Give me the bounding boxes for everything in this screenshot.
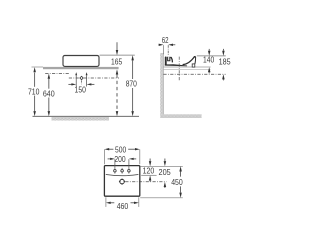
dimension 205 <box>159 159 171 189</box>
basin profile bowl swoosh <box>183 57 195 65</box>
basin profile front rim tip <box>194 56 196 58</box>
countertop <box>43 67 119 69</box>
dimension 450 <box>171 166 183 197</box>
dimension 185 <box>219 49 231 81</box>
svg-text:205: 205 <box>159 167 171 177</box>
basin profile front outer edge <box>194 57 197 64</box>
bottom extension line (plan right) <box>140 197 183 199</box>
svg-text:165: 165 <box>111 57 122 67</box>
tap hole left <box>114 170 117 173</box>
svg-text:200: 200 <box>114 154 125 164</box>
rim extension line (profile) <box>197 55 226 57</box>
dimension 200 <box>108 154 137 164</box>
supply arrow left <box>75 72 77 86</box>
rim extension line <box>100 54 135 56</box>
svg-text:870: 870 <box>126 79 137 89</box>
dimension 120 <box>141 159 156 182</box>
top extension line (plan right) <box>140 165 183 167</box>
svg-text:640: 640 <box>43 89 55 99</box>
svg-text:120: 120 <box>143 166 155 176</box>
basin profile bottom line <box>165 64 187 66</box>
counter left extension line <box>32 66 44 68</box>
svg-text:450: 450 <box>171 177 183 187</box>
wall face line <box>162 53 164 114</box>
drain (plan) <box>119 179 125 185</box>
floor hatch <box>52 117 110 121</box>
basin profile back wall <box>165 57 167 66</box>
basin profile tap hole section <box>167 57 170 61</box>
dashed vertical (drain drop to floor) <box>116 75 119 117</box>
svg-text:140: 140 <box>203 55 214 65</box>
basin profile deck lip <box>170 57 173 63</box>
basin box (side view) <box>63 56 99 67</box>
tap hole right <box>128 170 131 173</box>
counter bottom line (profile) <box>163 69 210 71</box>
supply dash-dot line (profile) <box>163 73 225 75</box>
drain level dash-dot line <box>69 77 119 79</box>
dimension 140 <box>203 49 214 74</box>
dimension 640 <box>43 74 55 117</box>
dimension 870 <box>126 55 137 116</box>
svg-text:460: 460 <box>117 201 129 211</box>
drain centerline (profile) <box>178 57 180 82</box>
floor hatch band <box>160 114 201 118</box>
dimension 460 <box>106 197 139 211</box>
dimension 710 <box>28 67 40 116</box>
floor line <box>33 115 140 117</box>
inner basin edge arc <box>106 174 139 175</box>
svg-text:185: 185 <box>219 57 231 67</box>
basin profile front wall foot <box>192 64 195 67</box>
basin outline (plan) <box>104 166 139 197</box>
wall hatch band <box>160 53 163 114</box>
supply arrow right <box>86 72 88 86</box>
drain centerline stub <box>81 80 83 84</box>
svg-text:710: 710 <box>28 87 40 97</box>
drain dash-dot line (plan) <box>125 181 166 183</box>
under-counter dash-dot line (640 level) <box>45 72 70 74</box>
counter top line (profile) <box>163 66 210 68</box>
dimension 62 <box>159 35 176 56</box>
svg-text:150: 150 <box>75 85 87 95</box>
dimension 150 <box>68 83 94 94</box>
dimension 165 <box>111 42 122 74</box>
svg-text:62: 62 <box>162 35 169 45</box>
dimension 500 <box>104 145 139 165</box>
drain diamond <box>80 76 83 79</box>
tap hole middle <box>121 170 124 173</box>
tap hole ticks <box>114 159 116 174</box>
